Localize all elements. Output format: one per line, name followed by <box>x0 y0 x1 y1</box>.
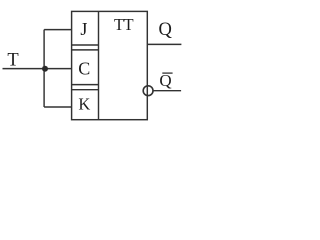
svg-text:Q: Q <box>159 20 173 40</box>
divider C/K upper <box>72 84 99 86</box>
overline of Q-bar label <box>162 72 172 74</box>
flip-flop body outline U1 <box>72 11 148 119</box>
svg-text:TT: TT <box>114 15 133 34</box>
wire branch vertical <box>43 30 45 107</box>
wire Q output <box>147 43 181 45</box>
svg-text:T: T <box>7 51 18 71</box>
wire T input <box>3 68 72 70</box>
divider C/K lower <box>72 89 99 91</box>
inversion bubble on Q-bar <box>143 86 153 96</box>
input field column divider (J/C/K column right edge) <box>98 11 100 119</box>
wire to J <box>44 29 72 31</box>
svg-text:J: J <box>80 19 87 39</box>
svg-text:Q: Q <box>159 71 171 90</box>
junction node dot <box>42 66 48 72</box>
divider J/C upper <box>72 44 99 46</box>
divider J/C lower <box>72 49 99 51</box>
wire to K <box>44 106 72 108</box>
svg-text:K: K <box>78 95 90 114</box>
wire Q-bar output <box>153 90 181 92</box>
svg-text:C: C <box>78 59 90 79</box>
